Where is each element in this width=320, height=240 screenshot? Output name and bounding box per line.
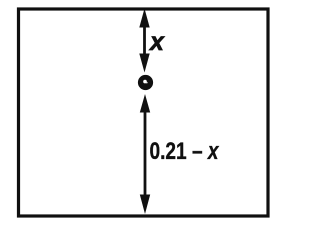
- svg-text:x: x: [148, 28, 165, 56]
- svg-text:0.21 – x: 0.21 – x: [150, 138, 220, 165]
